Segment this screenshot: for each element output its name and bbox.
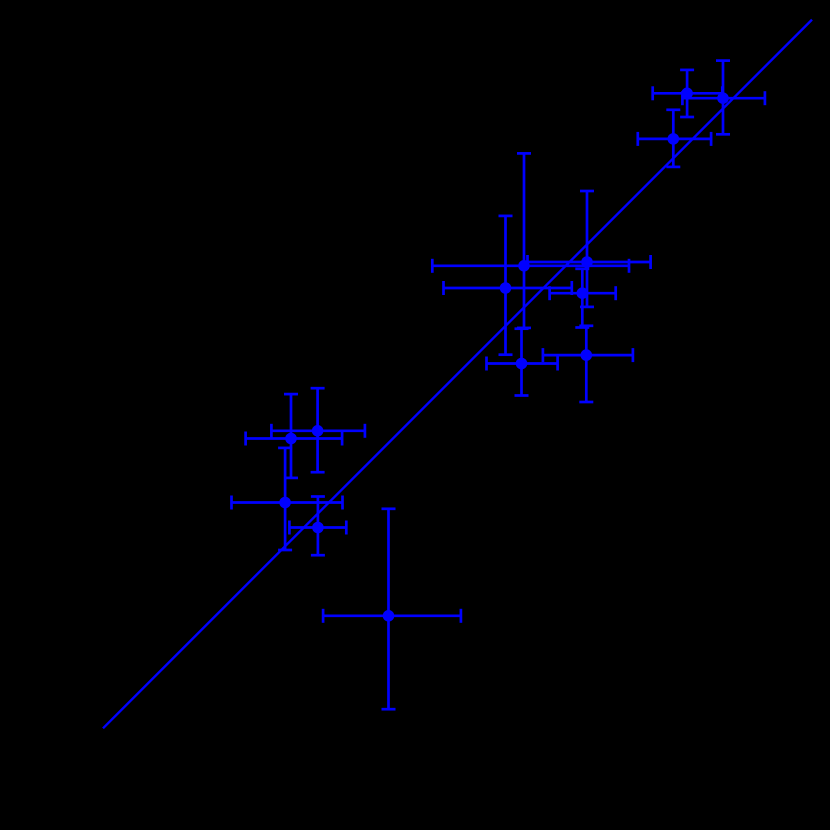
data point P1 marker	[681, 88, 693, 100]
data point P11 y error bar	[311, 388, 325, 472]
data point P4 x error bar	[432, 259, 629, 273]
data point P5 y error bar	[499, 216, 513, 355]
data point P10 marker	[285, 433, 297, 445]
data point P6 x error bar	[528, 255, 651, 269]
data point P7 y error bar	[575, 269, 589, 328]
data point P4 marker	[518, 260, 530, 272]
data point P13 x error bar	[289, 521, 346, 535]
data point P7 marker	[577, 287, 589, 299]
data point P8 y error bar	[515, 329, 529, 396]
data point P9 x error bar	[543, 348, 633, 362]
data point P4 y error bar	[517, 153, 531, 328]
data point P2 x error bar	[682, 91, 765, 105]
data point P6 y error bar	[580, 191, 594, 307]
data point P14 x error bar	[323, 609, 461, 623]
data point P5 x error bar	[444, 281, 572, 295]
data point P7 x error bar	[550, 286, 616, 300]
data point P10 x error bar	[246, 432, 343, 446]
y=x reference line	[103, 20, 812, 729]
data point P14 marker	[383, 610, 395, 622]
data point P12 marker	[279, 497, 291, 509]
data point P1 y error bar	[680, 70, 694, 117]
data point P5 marker	[500, 282, 512, 294]
data point P3 marker	[668, 133, 680, 145]
data point P13 marker	[312, 522, 324, 534]
data point P10 y error bar	[284, 394, 298, 478]
data point P11 marker	[312, 425, 324, 437]
data point P9 marker	[581, 349, 593, 361]
data point P8 marker	[516, 358, 528, 370]
data point P2 y error bar	[716, 61, 730, 135]
data point P3 x error bar	[638, 132, 711, 146]
data point P12 x error bar	[232, 496, 343, 510]
data point P1 x error bar	[653, 86, 723, 100]
data point P9 y error bar	[579, 326, 593, 402]
data point P2 marker	[717, 92, 729, 104]
data point P8 x error bar	[487, 357, 558, 371]
data point P11 x error bar	[271, 424, 365, 438]
data point P14 y error bar	[382, 509, 396, 709]
data point P12 y error bar	[278, 448, 292, 550]
data point P3 y error bar	[666, 110, 680, 167]
data point P6 marker	[581, 256, 593, 268]
data point P13 y error bar	[311, 497, 325, 556]
